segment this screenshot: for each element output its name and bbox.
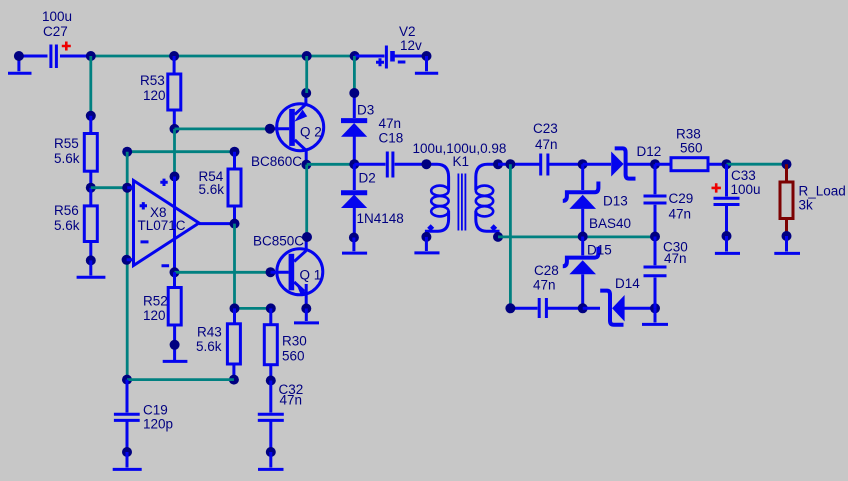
svg-text:R43: R43 bbox=[197, 325, 222, 340]
diode D3 bbox=[341, 93, 367, 164]
svg-text:C29: C29 bbox=[669, 191, 694, 206]
node Q1 collector bbox=[302, 232, 312, 242]
node K1 secondary top bbox=[493, 159, 503, 169]
node C19-top bbox=[122, 375, 132, 385]
svg-text:D2: D2 bbox=[359, 171, 376, 186]
wire R53 to Q2 base bbox=[175, 127, 270, 130]
svg-text:120p: 120p bbox=[143, 417, 173, 432]
node D3-rail bbox=[349, 88, 359, 98]
wire collector node to D3/D2 bbox=[307, 163, 355, 166]
svg-text:100u: 100u bbox=[42, 9, 72, 24]
node opamp out bbox=[230, 219, 240, 229]
capacitor C23 bbox=[541, 154, 583, 176]
svg-text:R53: R53 bbox=[140, 73, 165, 88]
transistor Q2 bbox=[270, 93, 324, 165]
node rail-R53 bbox=[169, 51, 179, 61]
svg-text:560: 560 bbox=[680, 141, 703, 156]
node R38-C33 bbox=[722, 159, 732, 169]
svg-text:Q 1: Q 1 bbox=[300, 268, 322, 283]
wire secondary bottom row bbox=[498, 235, 655, 238]
svg-text:D3: D3 bbox=[357, 103, 374, 118]
node D13-D15 bbox=[578, 232, 588, 242]
capacitor C33 bbox=[714, 164, 740, 236]
wire top rail bbox=[91, 55, 355, 58]
node rail-C27 bbox=[86, 51, 96, 61]
ground bbox=[342, 238, 367, 254]
svg-text:47n: 47n bbox=[280, 393, 303, 408]
svg-text:R52: R52 bbox=[143, 294, 168, 309]
node R_Load-gnd bbox=[782, 231, 792, 241]
diode D15 bbox=[563, 237, 599, 309]
svg-text:5.6k: 5.6k bbox=[199, 182, 225, 197]
node fb-left bbox=[122, 147, 132, 157]
capacitor C28 bbox=[510, 298, 582, 318]
node Q1 emitter bbox=[301, 304, 311, 314]
transformer K1 bbox=[426, 164, 498, 237]
node Q2 collector bbox=[301, 160, 311, 170]
wire output down to R43/R30 bbox=[233, 224, 236, 309]
diode D12 bbox=[583, 148, 655, 178]
node Q2 emitter bbox=[301, 88, 311, 98]
svg-text:C23: C23 bbox=[533, 121, 558, 136]
resistor R55 bbox=[84, 116, 97, 188]
node C29-bottom bbox=[650, 232, 660, 242]
battery V2 bbox=[355, 46, 427, 69]
diode D13 bbox=[563, 164, 599, 236]
C27 polarity plus bbox=[62, 42, 71, 51]
svg-text:5.6k: 5.6k bbox=[196, 339, 222, 354]
node C23-D12/D13 bbox=[578, 159, 588, 169]
transistor Q1 bbox=[271, 237, 323, 309]
capacitor C29 bbox=[644, 164, 667, 236]
node opamp plus-in bbox=[122, 183, 132, 193]
svg-text:12v: 12v bbox=[400, 38, 422, 53]
svg-text:R30: R30 bbox=[282, 334, 307, 349]
wire C19 to R43 bbox=[127, 378, 234, 381]
capacitor C27 bbox=[19, 45, 91, 69]
wire rail to R55 bbox=[89, 56, 92, 116]
svg-text:47n: 47n bbox=[535, 137, 558, 152]
ground bbox=[715, 236, 740, 253]
node R43 bottom bbox=[229, 375, 239, 385]
node K1 primary bottom bbox=[421, 232, 431, 242]
svg-text:Q 2: Q 2 bbox=[300, 125, 322, 140]
node V2-gnd bbox=[422, 51, 432, 61]
ground bbox=[113, 452, 142, 469]
svg-text:C33: C33 bbox=[731, 168, 756, 183]
capacitor C30 bbox=[644, 237, 667, 309]
svg-text:C19: C19 bbox=[143, 403, 168, 418]
svg-text:1N4148: 1N4148 bbox=[357, 211, 404, 226]
node D3-D2 bbox=[349, 159, 359, 169]
node rail-D3 bbox=[350, 51, 360, 61]
svg-text:V2: V2 bbox=[399, 24, 416, 39]
node Q2 base bbox=[265, 124, 275, 134]
resistor R53 bbox=[168, 56, 181, 129]
node K1 primary top bbox=[421, 159, 431, 169]
ground bbox=[414, 237, 439, 253]
node C33-gnd bbox=[722, 231, 732, 241]
resistor R52 bbox=[168, 272, 181, 360]
ground bbox=[774, 236, 800, 253]
wire secondary top to C23 bbox=[498, 163, 540, 166]
resistor R56 bbox=[84, 188, 97, 261]
svg-text:C18: C18 bbox=[379, 131, 404, 146]
resistor R_Load bbox=[780, 164, 793, 236]
svg-text:TL071C: TL071C bbox=[138, 218, 186, 233]
node C32-gnd bbox=[266, 447, 276, 457]
node R55-R56 bbox=[86, 183, 96, 193]
resistor R30 bbox=[264, 308, 277, 380]
svg-text:47n: 47n bbox=[664, 251, 687, 266]
node rail-Q2 bbox=[302, 51, 312, 61]
capacitor C32 bbox=[258, 381, 284, 453]
node Q1 base bbox=[266, 267, 276, 277]
svg-text:560: 560 bbox=[282, 349, 305, 364]
wire Q2 emitter to rail bbox=[305, 56, 308, 93]
node R30-C32 bbox=[266, 376, 276, 386]
node C27-gnd bbox=[14, 51, 24, 61]
svg-text:5.6k: 5.6k bbox=[54, 218, 80, 233]
svg-text:BAS40: BAS40 bbox=[589, 216, 631, 231]
svg-text:BC860C: BC860C bbox=[251, 154, 302, 169]
ground bbox=[415, 56, 438, 73]
wire Q2 collector to Q1 collector bbox=[305, 165, 308, 237]
svg-text:3k: 3k bbox=[799, 198, 814, 213]
svg-text:D12: D12 bbox=[637, 144, 662, 159]
wire rail to D3 bbox=[353, 56, 356, 93]
svg-text:R38: R38 bbox=[676, 127, 701, 142]
svg-text:120: 120 bbox=[143, 308, 166, 323]
svg-text:5.6k: 5.6k bbox=[54, 151, 80, 166]
wire opamp output bbox=[199, 222, 235, 225]
svg-text:C28: C28 bbox=[534, 263, 559, 278]
node C23 branch bbox=[505, 159, 515, 169]
node R_Load top bbox=[782, 159, 792, 169]
svg-text:47n: 47n bbox=[669, 207, 692, 222]
node opamp V+ bbox=[170, 172, 180, 182]
svg-text:D14: D14 bbox=[615, 276, 640, 291]
svg-text:R_Load: R_Load bbox=[799, 184, 846, 199]
wire C33 to R_Load bbox=[727, 163, 787, 166]
svg-text:100u,100u,0.98: 100u,100u,0.98 bbox=[413, 141, 507, 156]
svg-text:D13: D13 bbox=[603, 194, 628, 209]
C33 polarity plus bbox=[712, 183, 721, 192]
wire R55/R56 to opamp plus bbox=[91, 186, 127, 189]
node C28-D15-D14 bbox=[578, 303, 588, 313]
node D12-C29-R38 bbox=[650, 159, 660, 169]
diode D2 bbox=[341, 164, 367, 237]
ground bbox=[294, 309, 319, 323]
svg-text:47n: 47n bbox=[533, 278, 556, 293]
node R53-bottom bbox=[170, 124, 180, 134]
wire R53 to opamp V+ bbox=[173, 129, 176, 177]
svg-text:120: 120 bbox=[143, 88, 166, 103]
wire feedback row bbox=[127, 150, 234, 153]
node D14-C30-gnd bbox=[650, 303, 660, 313]
node C28 branch bbox=[505, 303, 515, 313]
node R55-top bbox=[86, 111, 96, 121]
svg-text:D15: D15 bbox=[587, 243, 612, 258]
ground bbox=[258, 452, 284, 469]
ground bbox=[8, 56, 32, 73]
node K1 secondary bottom bbox=[493, 232, 503, 242]
node R30 top bbox=[266, 303, 276, 313]
capacitor C19 bbox=[114, 380, 140, 452]
wire R43 R30 row bbox=[235, 307, 271, 310]
svg-text:47n: 47n bbox=[379, 116, 402, 131]
node R56-gnd bbox=[86, 255, 96, 265]
node C19-gnd bbox=[122, 447, 132, 457]
ground bbox=[77, 260, 106, 277]
op-amp U X8 TL071C bbox=[127, 177, 199, 273]
node R43 top bbox=[230, 303, 240, 313]
svg-text:100u: 100u bbox=[731, 182, 761, 197]
node fb-R54 bbox=[230, 147, 240, 157]
svg-text:R56: R56 bbox=[54, 203, 79, 218]
node opamp V- bbox=[170, 267, 180, 277]
ground bbox=[642, 308, 668, 324]
node opamp minus-in bbox=[122, 255, 132, 265]
diode D14 bbox=[583, 291, 655, 325]
svg-text:BC850C: BC850C bbox=[253, 234, 304, 249]
wire branch down to C28 bbox=[509, 164, 512, 308]
node R52-gnd bbox=[170, 340, 180, 350]
svg-text:R55: R55 bbox=[54, 136, 79, 151]
resistor R54 bbox=[228, 152, 241, 224]
resistor R43 bbox=[227, 308, 240, 379]
wire minus input to Q1 base bbox=[175, 271, 271, 274]
svg-text:K1: K1 bbox=[453, 154, 470, 169]
capacitor C18 bbox=[354, 152, 426, 178]
svg-text:C27: C27 bbox=[43, 24, 68, 39]
wire left feedback vertical bbox=[126, 152, 129, 380]
resistor R38 bbox=[655, 158, 727, 171]
node D2-gnd bbox=[349, 233, 359, 243]
ground bbox=[163, 360, 188, 363]
